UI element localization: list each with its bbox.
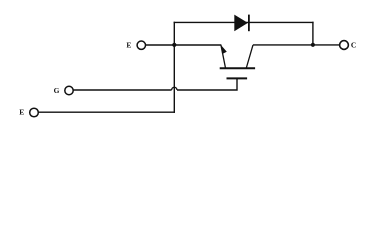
transistor Q emitter leg	[221, 45, 226, 68]
wire main left vertical (E rail)	[173, 22, 175, 113]
wire right vertical (diode to C node)	[312, 22, 314, 45]
wire gate right segment (hop to gate corner)	[177, 78, 237, 90]
transistor Q collector leg	[246, 45, 253, 68]
wire top bus horizontal (diode branch)	[174, 21, 314, 23]
diode D (anode triangle)	[235, 15, 248, 31]
wire hop over E rail	[172, 87, 177, 90]
node E terminal circle (lower emitter)	[30, 108, 39, 117]
diode D (cathode bar)	[248, 15, 250, 32]
node E terminal circle (upper emitter)	[137, 41, 145, 49]
wire gate left segment (G terminal to hop)	[73, 89, 171, 91]
node C terminal circle (collector)	[340, 41, 349, 50]
svg-text:E: E	[19, 108, 24, 117]
svg-text:C: C	[351, 40, 356, 49]
junction dot E rail	[172, 43, 176, 47]
junction dot C branch	[311, 43, 315, 47]
wire lower E terminal to E rail	[38, 111, 175, 113]
svg-text:E: E	[126, 40, 131, 49]
transistor Q emitter arrowhead	[221, 45, 227, 54]
transistor Q gate plate	[227, 77, 248, 79]
transistor Q IGBT body bar	[220, 67, 255, 69]
node G terminal circle (gate)	[65, 86, 73, 94]
wire IGBT collector to C terminal	[253, 44, 339, 46]
svg-text:G: G	[54, 86, 60, 95]
wire E terminal to junction and IGBT emitter	[146, 44, 222, 46]
